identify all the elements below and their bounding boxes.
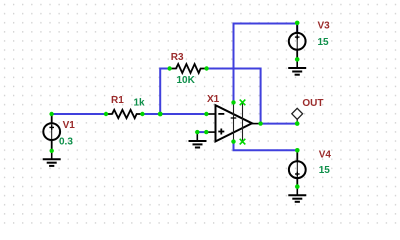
svg-text:OUT: OUT [302,98,323,109]
node dot V3 top [295,21,300,26]
svg-text:R3: R3 [171,52,184,63]
svg-text:15: 15 [318,37,330,48]
no-connect X top pin [240,100,246,106]
svg-text:R1: R1 [111,95,124,106]
svg-text:V1: V1 [63,120,76,131]
node junction R1/R3 [158,112,163,117]
wire op-amp V- pin to V4 [234,142,298,151]
node dot plus-input ground [195,130,199,134]
ground under V1 [43,151,61,166]
wire V3 to op-amp V+ pin [234,24,298,103]
node dot R1 right [140,112,144,116]
no-connect X bottom pin [240,139,246,145]
node dot OUT [295,121,300,126]
wire op-amp plus input to ground [197,131,206,133]
node dot R1 left [104,112,108,116]
svg-text:15: 15 [319,165,331,176]
node dot op-amp V- pin [231,139,235,143]
wire R1 to op-amp inverting input [142,113,206,115]
ground at op-amp + input [189,132,207,147]
node dot op-amp output [258,121,262,125]
svg-text:X1: X1 [207,94,220,105]
svg-text:V4: V4 [319,150,332,161]
node dot R3 right [204,66,208,70]
node dot op-amp inverting input [204,112,208,116]
wire op-amp output to OUT [261,123,298,125]
wire junction up to R3 left [160,69,169,115]
resistor R3 [170,64,207,73]
svg-text:1k: 1k [134,98,146,109]
wire R3 right to feedback corner [207,69,261,124]
ground under V3 [288,59,306,74]
node dot V4 top [295,148,300,153]
svg-text:10K: 10K [177,75,196,86]
node dot op-amp V+ pin [231,100,235,104]
svg-text:V3: V3 [318,21,331,32]
node dot V3 bottom [295,57,300,62]
node dot V4 bottom [295,184,300,189]
node dot V1 bottom [50,149,54,153]
voltage source V4 [289,150,306,186]
node dot plus-input pin [204,130,208,134]
op-amp X1 [206,102,260,141]
node dot V1 top [49,112,53,116]
voltage source V1 [43,114,60,151]
node dot R3 left [167,66,171,70]
voltage source V3 [289,23,306,60]
wire V1 to R1 [52,113,106,115]
ground under V4 [288,187,306,202]
resistor R1 [106,110,142,118]
svg-text:0.3: 0.3 [59,137,73,148]
OUT diamond marker [292,108,303,123]
